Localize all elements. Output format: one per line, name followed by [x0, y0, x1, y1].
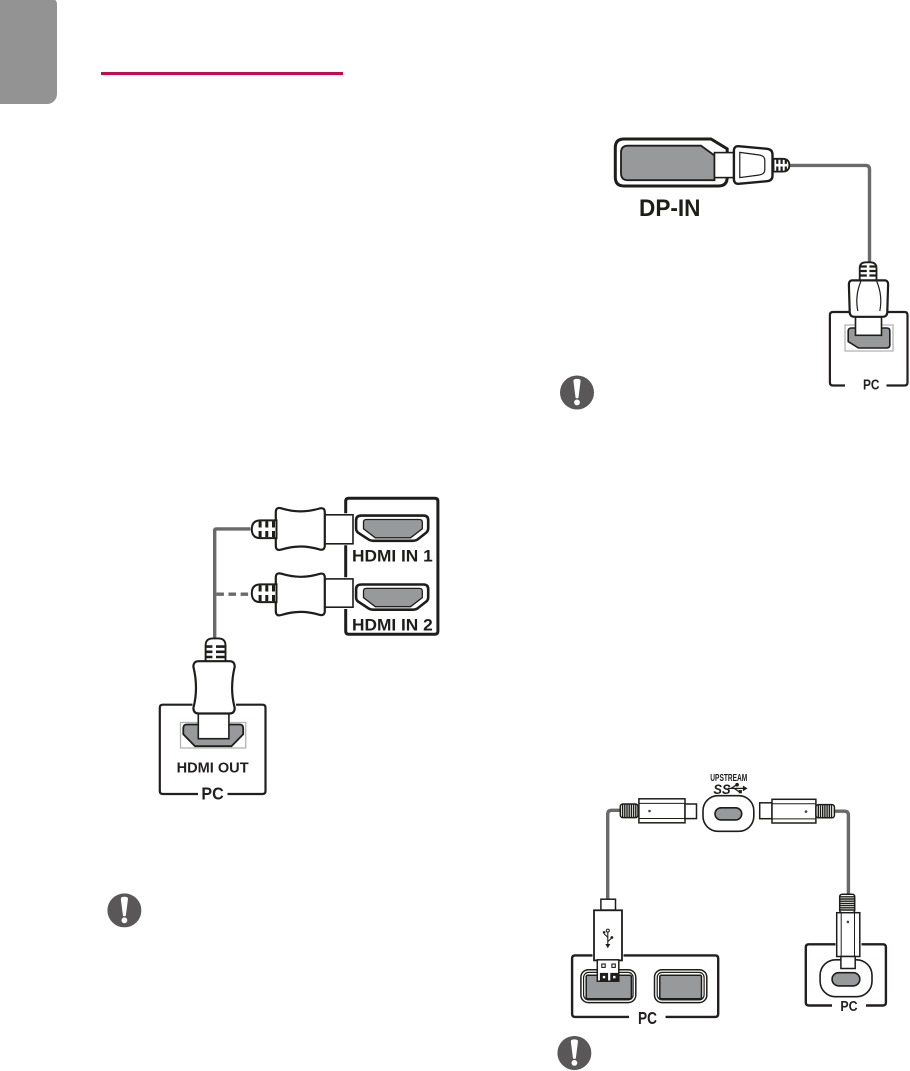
- DP lower plug blade: [856, 317, 882, 336]
- USB-C plug left pin dot: [648, 810, 651, 813]
- USB-C plug left body: [639, 799, 685, 823]
- warning icon 3: [557, 1036, 591, 1070]
- DP plug body seam: [740, 152, 765, 177]
- HDMI OUT port surround: [181, 723, 246, 749]
- USB-C plug right strain relief: [816, 805, 835, 818]
- HDMI OUT strain relief ribs: [206, 647, 225, 657]
- svg-text:PC: PC: [863, 378, 880, 394]
- DP PC port surround: [845, 325, 893, 351]
- upstream USB port shell: [703, 796, 754, 832]
- right PC box: [806, 944, 886, 1005]
- HDMI wire dashed: [216, 593, 251, 596]
- USB-A plug pin windows: [602, 964, 605, 967]
- USB-C plug left ribs: [623, 805, 636, 818]
- USB-A port 2 outer shell: [655, 970, 707, 1003]
- warning icon 1: [560, 376, 594, 410]
- sidebar tab: [0, 0, 57, 104]
- DP strain relief ribs: [777, 160, 786, 172]
- USB-A plug metal: [597, 960, 619, 981]
- svg-text:PC: PC: [201, 783, 224, 803]
- USB cable left: [608, 810, 621, 899]
- USB-C plug right pin dot: [805, 810, 808, 813]
- USB-A plug body: [594, 910, 622, 960]
- USB-A port 1 opening (gray): [586, 975, 631, 999]
- USB-A port 2 inner shell: [657, 972, 704, 1000]
- right USB-C lower bevels: [841, 913, 854, 957]
- left PC box: [572, 955, 718, 1017]
- DP cable: [789, 165, 870, 262]
- HDMI OUT plug body: [193, 661, 234, 713]
- svg-text:SS: SS: [713, 782, 730, 797]
- svg-text:DP-IN: DP-IN: [639, 195, 701, 222]
- HDMI plug 2 ribs: [260, 585, 273, 601]
- HDMI IN 2 opening (gray): [364, 588, 423, 606]
- DP lower strain relief ribs: [861, 267, 877, 276]
- HDMI PC box: [160, 705, 266, 794]
- USB-C plug left strain relief: [620, 804, 638, 818]
- HDMI panel: [346, 498, 438, 634]
- right USB-C lower pin dot: [847, 921, 850, 924]
- DP strain relief: [774, 159, 790, 172]
- svg-text:HDMI OUT: HDMI OUT: [177, 760, 249, 776]
- DP-IN port opening (gray): [621, 146, 715, 181]
- right USB-C port opening (gray pill): [832, 973, 860, 986]
- HDMI plug 2 body: [276, 573, 325, 615]
- USB-A plug contacts: [600, 973, 608, 981]
- USB-C plug left bevels: [639, 803, 685, 818]
- USB-C plug right tip: [760, 803, 772, 819]
- HDMI plug 2 strain relief: [252, 584, 277, 602]
- USB-A plug neck: [601, 899, 616, 910]
- DP plug body: [734, 146, 773, 184]
- USB-C plug left tip: [685, 804, 697, 819]
- HDMI OUT opening (gray): [183, 725, 243, 747]
- right USB-C lower ribs: [840, 897, 854, 910]
- svg-text:HDMI IN 1: HDMI IN 1: [352, 548, 433, 566]
- heading rule: [101, 72, 343, 75]
- HDMI plug 1 blade: [325, 515, 354, 544]
- USB-A port 1 inner shell: [584, 972, 634, 1000]
- right USB-C port shell: [820, 960, 872, 997]
- USB cable right: [834, 811, 848, 894]
- DP lower plug body seam: [857, 282, 881, 312]
- upstream USB port opening (gray pill): [715, 808, 742, 820]
- USB-C plug right ribs: [818, 805, 831, 817]
- warning icon 2: [107, 893, 141, 927]
- DP plug blade: [715, 153, 735, 178]
- HDMI OUT plug blade: [198, 714, 229, 739]
- right USB-C lower tip: [841, 957, 855, 969]
- HDMI IN 2 port shell: [356, 585, 428, 610]
- svg-text:PC: PC: [840, 999, 858, 1015]
- HDMI plug 1 ribs: [260, 521, 273, 537]
- right USB-C lower strain relief: [840, 894, 855, 913]
- HDMI IN 1 opening (gray): [364, 520, 423, 538]
- svg-text:PC: PC: [638, 1008, 657, 1028]
- HDMI OUT strain relief: [206, 638, 226, 662]
- DP PC box: [830, 312, 908, 386]
- USB-A port 2 opening (gray): [660, 975, 702, 999]
- USB-A plug trident: [604, 932, 611, 947]
- DP-IN port outer shell: [615, 139, 727, 186]
- HDMI plug 1 strain relief: [252, 520, 277, 538]
- DP lower strain relief: [860, 262, 877, 279]
- USB-C plug right body: [772, 799, 816, 823]
- HDMI wire solid: [215, 529, 251, 638]
- DP lower plug body: [849, 280, 888, 316]
- HDMI IN 1 port shell: [356, 516, 428, 541]
- USB-C plug right bevels: [772, 804, 816, 819]
- right USB-C lower body: [837, 913, 860, 957]
- DP PC port opening (gray): [848, 328, 890, 348]
- svg-text:HDMI IN 2: HDMI IN 2: [352, 617, 433, 635]
- USB-A port 1 outer shell: [581, 970, 636, 1003]
- HDMI plug 1 body: [276, 508, 325, 550]
- HDMI plug 2 blade: [325, 579, 354, 607]
